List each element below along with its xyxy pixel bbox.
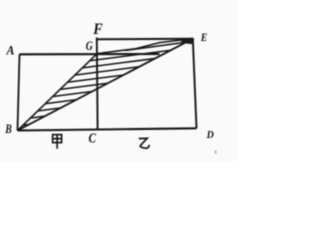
svg-text:D: D [206,130,214,141]
svg-text:C: C [89,131,97,146]
svg-text:A: A [6,42,15,57]
svg-text:B: B [4,122,11,136]
svg-text:G: G [86,39,93,53]
svg-text:E: E [200,30,207,44]
svg-text:F: F [92,21,103,38]
